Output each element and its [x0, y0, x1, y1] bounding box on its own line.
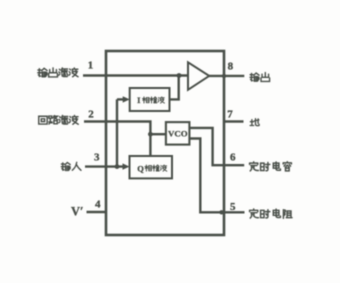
wire pin5 lead: [222, 211, 245, 213]
block VCO: [166, 122, 190, 145]
svg-text:1: 1: [88, 60, 94, 72]
label 相检波 in Q-phase detector block: [145, 165, 167, 171]
label 输出 (output) pin8: [250, 73, 270, 82]
wire from node J1 down to I-phase detector output: [170, 76, 179, 100]
svg-text:2: 2: [88, 109, 94, 121]
node J4 junction dot: [148, 132, 153, 137]
node J3 junction dot: [115, 164, 120, 169]
label 定时电阻 (timing resistor) pin5: [250, 209, 292, 218]
IC body outline: [106, 51, 224, 235]
wire J4 down to Q-phase detector: [149, 134, 151, 156]
node J2 junction dot at pin8 edge crossing: [222, 74, 226, 78]
wire pin2 lead and net to VCO node: [84, 122, 150, 135]
svg-text:VCO: VCO: [168, 129, 188, 139]
svg-text:8: 8: [228, 61, 234, 73]
wire into I-phase detector with arrowhead: [117, 98, 124, 100]
wire J4 to VCO input: [150, 133, 166, 135]
block I-phase detector: [130, 88, 170, 111]
wire pin1 lead and internal net to buffer input: [83, 74, 188, 76]
wire pin3 lead to node J3: [85, 165, 124, 167]
wire pin8 output lead: [209, 75, 244, 77]
node J5 junction dot on pin5: [219, 210, 223, 214]
label 相检波 in I-phase detector block: [142, 97, 164, 103]
op-amp output buffer triangle: [188, 62, 209, 90]
svg-text:6: 6: [230, 152, 236, 164]
svg-text:I: I: [137, 95, 141, 105]
node J1 junction dot: [177, 73, 182, 78]
svg-text:4: 4: [95, 199, 101, 211]
wire VCO upper output to pin6: [189, 128, 244, 165]
label 输入 (input) pin3: [61, 162, 81, 170]
label 地 (ground) pin7: [250, 119, 259, 126]
wire vertical net from I-detector input down to pin3 node: [116, 99, 118, 166]
svg-text:3: 3: [94, 152, 100, 164]
svg-text:V′: V′: [71, 205, 84, 219]
wire pin4 lead: [87, 211, 107, 213]
svg-text:Q: Q: [137, 163, 144, 173]
label 定时电容 (timing capacitor) pin6: [250, 162, 292, 171]
block Q-phase detector: [130, 156, 173, 178]
wire VCO lower output to pin5: [189, 139, 221, 213]
svg-text:5: 5: [230, 201, 236, 213]
label 输出滤波 (output filter) pin1: [38, 68, 78, 77]
arrowhead into Q-phase detector: [123, 163, 130, 169]
svg-text:7: 7: [227, 109, 233, 121]
wire pin7 ground lead: [224, 120, 244, 122]
label 回路滤波 (loop filter) pin2: [39, 115, 79, 124]
